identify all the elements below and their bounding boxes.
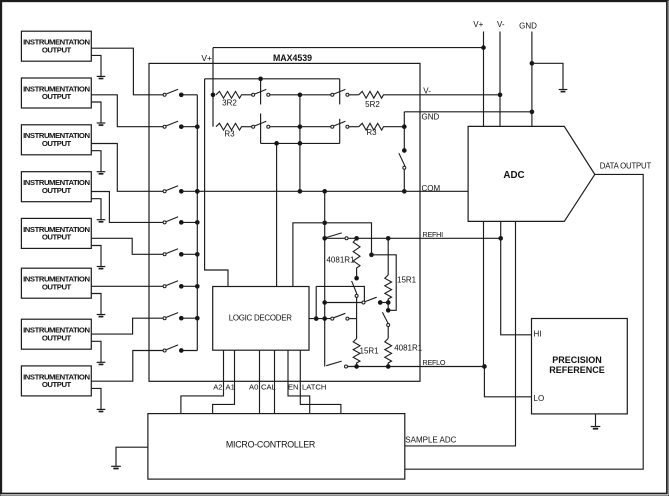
svg-text:REFERENCE: REFERENCE xyxy=(549,365,605,375)
svg-text:OUTPUT: OUTPUT xyxy=(42,139,72,148)
label GND pin xyxy=(422,112,440,121)
switch NO4 xyxy=(163,217,197,224)
wire decoder feed B xyxy=(276,143,278,286)
svg-text:OUTPUT: OUTPUT xyxy=(42,186,72,195)
junction inner bottom 1 xyxy=(275,142,279,146)
label LOGIC DECODER xyxy=(229,313,293,322)
label PRECISION xyxy=(552,355,602,365)
junction V+ 3R2 xyxy=(211,93,215,97)
label A1 xyxy=(226,383,235,392)
label GND terminal xyxy=(519,21,537,30)
wire R3 to switch xyxy=(243,126,252,128)
svg-text:OUTPUT: OUTPUT xyxy=(42,45,72,54)
bar switch B2 xyxy=(339,119,341,144)
wire 15R1 lower lead xyxy=(356,319,358,339)
junction REFHI 15R1 xyxy=(386,236,390,240)
junction 15R1 row xyxy=(386,301,390,305)
wire box6 ground stub xyxy=(91,294,101,315)
junction row318 bus3 xyxy=(323,317,327,321)
instrumentation output box 1 xyxy=(21,31,91,61)
wire DATA OUTPUT return xyxy=(405,174,643,469)
precision reference box xyxy=(532,319,628,414)
wire box3 ground stub xyxy=(91,151,101,172)
ground box3 xyxy=(97,172,106,174)
svg-text:OUTPUT: OUTPUT xyxy=(42,380,72,389)
wire switch B1 to 5R2 xyxy=(349,94,359,96)
junction REFHI bus3 xyxy=(323,236,327,240)
label ADC xyxy=(503,170,524,181)
junction bus-NO5 xyxy=(195,252,199,256)
switch row318 xyxy=(331,313,349,320)
wire control row xyxy=(293,223,372,287)
resistor 15R1 upper xyxy=(385,275,417,301)
junction control bus3 xyxy=(323,221,327,225)
svg-text:15R1: 15R1 xyxy=(360,346,380,355)
wire V- rail xyxy=(499,32,501,127)
ground box1 xyxy=(97,76,106,78)
junction bus-NO2 xyxy=(195,125,199,129)
wire decoder feed A xyxy=(205,79,228,287)
wire V+ horizontal xyxy=(213,47,484,49)
svg-text:R3: R3 xyxy=(366,128,377,137)
wire box5 output to switch NO5 xyxy=(91,238,163,254)
wire cal link vertical xyxy=(315,286,317,318)
wire cal inner bottom xyxy=(261,142,340,144)
svg-text:EN: EN xyxy=(288,383,299,392)
wire SAMPLE ADC xyxy=(405,221,516,446)
ground box6 xyxy=(97,315,106,317)
wire LATCH/decoder pin6 xyxy=(300,350,341,413)
junction REFLO 4081R1 xyxy=(386,365,390,369)
MAX4539 box xyxy=(149,63,420,381)
wire switch B2 to R3 right xyxy=(349,126,359,128)
wire tap bus xyxy=(324,191,326,366)
wire control elbow right xyxy=(372,255,397,310)
wire 4081R1 to switch xyxy=(356,270,358,278)
wire switch to row xyxy=(356,297,358,318)
junction COM node AB xyxy=(298,189,302,193)
label A2 xyxy=(213,383,222,392)
wire reference ground stem xyxy=(595,414,597,427)
wire CAL/decoder pin4 xyxy=(274,350,276,413)
ground box5 xyxy=(97,267,106,269)
svg-text:4081R1: 4081R1 xyxy=(394,344,423,353)
svg-text:A2: A2 xyxy=(213,383,222,392)
svg-text:OUTPUT: OUTPUT xyxy=(42,233,72,242)
junction row318 a xyxy=(314,317,318,321)
wire row318 right xyxy=(349,318,357,320)
wire EN/decoder pin5 xyxy=(288,350,310,413)
instrumentation output box 2 xyxy=(21,78,91,108)
wire box5 ground stub xyxy=(91,246,101,267)
switch NO7 xyxy=(163,313,197,320)
svg-text:A1: A1 xyxy=(226,383,235,392)
instrumentation output box 6 xyxy=(21,268,91,298)
junction row302 b xyxy=(378,301,382,305)
resistor 4081R1 upper xyxy=(326,238,360,269)
svg-text:15R1: 15R1 xyxy=(397,275,417,284)
label REFERENCE xyxy=(549,365,605,375)
wire box1 output to switch NO1 xyxy=(91,48,163,95)
label V+ (left) xyxy=(201,53,212,63)
junction GND-R3 xyxy=(402,125,406,129)
wire 4081R1 lower bottom xyxy=(387,365,389,367)
switch GND-COM xyxy=(399,149,406,170)
wire box7 output to switch NO7 xyxy=(91,318,163,334)
junction REFLO 15R1 xyxy=(355,365,359,369)
wire row302 xyxy=(325,302,362,304)
ground box8 xyxy=(97,409,106,411)
switch row302 xyxy=(362,297,377,304)
svg-text:LO: LO xyxy=(534,394,545,403)
wire 5R2 to V- pin xyxy=(385,94,500,96)
svg-text:5R2: 5R2 xyxy=(365,100,380,109)
wire micro ground xyxy=(116,447,148,466)
ground micro xyxy=(111,466,121,468)
switch NO5 xyxy=(163,249,197,256)
svg-text:ADC: ADC xyxy=(503,170,524,181)
wire row318 from decoder xyxy=(309,318,331,320)
resistor 3R2 xyxy=(216,91,243,107)
label MAX4539 xyxy=(273,53,312,63)
ground box2 xyxy=(97,123,106,125)
junction REFLO rail xyxy=(483,365,487,369)
wire cal link upper xyxy=(316,286,364,301)
junction inner top xyxy=(259,77,263,81)
svg-text:OUTPUT: OUTPUT xyxy=(42,282,72,291)
label CAL xyxy=(261,383,276,392)
wire 15R1 to tap xyxy=(387,303,389,310)
junction COM bus xyxy=(195,189,199,193)
svg-text:REFLO: REFLO xyxy=(423,358,446,367)
resistor 5R2 xyxy=(359,91,385,109)
wire box4 ground stub xyxy=(91,199,101,220)
wire box2 ground stub xyxy=(91,102,101,123)
junction tap upper xyxy=(386,308,390,312)
switch NO3 xyxy=(163,186,197,193)
svg-text:LOGIC DECODER: LOGIC DECODER xyxy=(229,313,293,322)
resistor R3 left xyxy=(216,123,243,138)
label DATA OUTPUT xyxy=(600,161,652,170)
svg-text:A0: A0 xyxy=(249,383,258,392)
svg-text:3R2: 3R2 xyxy=(222,98,237,107)
wire V+ rail xyxy=(483,32,485,127)
instrumentation output box 8 xyxy=(21,366,91,396)
label LATCH xyxy=(302,383,326,392)
svg-text:V-: V- xyxy=(497,20,505,29)
label EN xyxy=(288,383,299,392)
wire box8 ground stub xyxy=(91,388,101,409)
junction bus-NO7 xyxy=(195,316,199,320)
switch NO2 xyxy=(163,121,197,128)
svg-text:PRECISION: PRECISION xyxy=(552,355,602,365)
wire box3 output to switch NO3 xyxy=(91,144,163,192)
svg-text:DATA OUTPUT: DATA OUTPUT xyxy=(600,161,652,170)
wire R3 right to GND chain xyxy=(385,126,404,128)
junction COM bus3 xyxy=(323,189,327,193)
svg-text:V+: V+ xyxy=(473,20,483,29)
svg-text:V+: V+ xyxy=(201,53,212,63)
label SAMPLE ADC xyxy=(405,436,456,445)
junction node B xyxy=(298,125,302,129)
junction node A xyxy=(298,93,302,97)
wire REFHI to ADC and reference xyxy=(501,221,532,334)
wire GND rail xyxy=(531,32,533,127)
wire REFLO row xyxy=(348,366,485,368)
junction row302 bus3 xyxy=(323,301,327,305)
junction bus-NO4 xyxy=(195,221,199,225)
wire common bus of switches xyxy=(196,95,198,351)
wire switch to node B xyxy=(270,126,300,128)
ground box7 xyxy=(97,362,106,364)
op ADC block xyxy=(468,126,595,221)
switch REFLO tap xyxy=(326,361,347,368)
wire REFLO to ADC xyxy=(483,221,485,366)
label A0 xyxy=(249,383,258,392)
wire GND chain upper xyxy=(403,112,405,151)
svg-text:MAX4539: MAX4539 xyxy=(273,53,312,63)
svg-text:GND: GND xyxy=(519,21,537,30)
resistor 15R1 lower xyxy=(353,339,379,365)
wire REFLO to reference LO xyxy=(484,367,531,397)
resistor R3 right xyxy=(359,123,385,137)
wire node B to switch B2 xyxy=(300,126,331,128)
wire node to switch B1 xyxy=(300,94,331,96)
wire tap to 4081R1 lower xyxy=(387,327,389,339)
junction V- rail xyxy=(498,93,502,97)
svg-text:CAL: CAL xyxy=(261,383,276,392)
svg-text:SAMPLE ADC: SAMPLE ADC xyxy=(405,436,456,445)
wire switch to node xyxy=(270,94,300,96)
bar switch A2 xyxy=(260,114,262,144)
wire GND to ground xyxy=(532,63,563,89)
switch cal A2 xyxy=(252,121,270,128)
wire REFHI right xyxy=(348,237,501,239)
wire 15R1 top lead xyxy=(387,238,389,275)
label V- terminal xyxy=(497,20,505,29)
wire row302 right xyxy=(380,302,388,304)
wire A1/decoder pin2 xyxy=(213,350,235,413)
junction bus-NO6 xyxy=(195,284,199,288)
svg-text:4081R1: 4081R1 xyxy=(326,255,355,264)
svg-text:OUTPUT: OUTPUT xyxy=(42,333,72,342)
instrumentation output box 7 xyxy=(21,319,91,349)
svg-text:HI: HI xyxy=(534,329,542,338)
switch 4081R1 tap xyxy=(352,276,359,297)
label LO xyxy=(534,394,545,403)
switch NO6 xyxy=(163,281,197,288)
resistor 4081R1 lower xyxy=(385,339,423,365)
wire A0/decoder pin3 xyxy=(259,350,261,413)
wire 15R1 lower bottom xyxy=(356,365,358,367)
wire REFHI left xyxy=(325,237,345,239)
svg-text:REFHI: REFHI xyxy=(423,230,444,239)
bar switch B1 xyxy=(339,79,341,105)
svg-text:V-: V- xyxy=(423,87,431,96)
wire 3R2 to switch xyxy=(243,94,252,96)
label MICRO-CONTROLLER xyxy=(226,439,315,449)
switch cal B2 xyxy=(331,121,349,128)
wire box2 output to switch NO2 xyxy=(91,95,163,127)
junction V+ top xyxy=(482,46,486,50)
junction inner bottom 2 xyxy=(298,142,302,146)
label V+ terminal xyxy=(473,20,483,29)
wire box7 ground stub xyxy=(91,341,101,362)
wire node A-B vertical xyxy=(299,95,301,192)
junction control elbow xyxy=(370,253,374,257)
junction bus-NO3 xyxy=(195,189,199,193)
switch NO8 xyxy=(163,345,197,352)
wire GND pin row xyxy=(404,111,532,113)
junction GND rail xyxy=(530,110,534,114)
instrumentation output box 4 xyxy=(21,172,91,202)
junction REFHI rail xyxy=(499,236,503,240)
instrumentation output box 3 xyxy=(21,125,91,155)
switch REFHI tap xyxy=(326,233,348,240)
wire box6 output to switch NO6 xyxy=(91,285,163,287)
wire A2/decoder pin1 xyxy=(181,350,224,413)
label REFHI pin xyxy=(423,230,444,239)
micro-controller box xyxy=(148,414,405,480)
wire box8 output to switch NO8 xyxy=(91,351,163,382)
junction REFHI 4081R1 xyxy=(355,236,359,240)
switch NO1 xyxy=(163,89,197,96)
svg-text:GND: GND xyxy=(422,112,440,121)
wire box4 output to switch NO4 xyxy=(91,192,163,223)
wire COM row xyxy=(197,190,468,192)
instrumentation output box 5 xyxy=(21,218,91,248)
svg-text:MICRO-CONTROLLER: MICRO-CONTROLLER xyxy=(226,439,315,449)
switch cal A1 xyxy=(252,89,270,96)
svg-text:COM: COM xyxy=(422,184,441,193)
wire box1 ground stub xyxy=(91,55,101,76)
label COM pin xyxy=(422,184,441,193)
switch 15R1 tap xyxy=(382,312,389,326)
ground box4 xyxy=(97,220,106,222)
label HI xyxy=(534,329,542,338)
wire V+ vertical feed xyxy=(212,48,214,127)
svg-text:OUTPUT: OUTPUT xyxy=(42,92,72,101)
ground supply xyxy=(559,90,568,92)
svg-text:LATCH: LATCH xyxy=(302,383,326,392)
svg-text:R3: R3 xyxy=(224,130,235,139)
ground reference xyxy=(591,427,601,429)
label REFLO pin xyxy=(423,358,446,367)
logic decoder box xyxy=(213,287,309,351)
switch cal B1 xyxy=(331,89,349,96)
wire cal inner top xyxy=(205,78,340,80)
wire GND chain lower xyxy=(403,169,405,191)
bar switch A1 xyxy=(260,79,262,105)
junction COM-GND chain xyxy=(402,189,406,193)
junction GND branch xyxy=(530,61,534,65)
label V- pin xyxy=(423,87,431,96)
